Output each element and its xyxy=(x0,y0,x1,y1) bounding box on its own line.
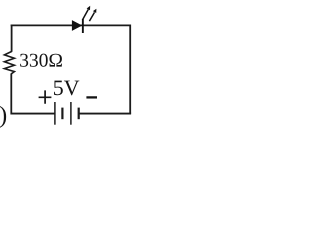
LED light arrow 2 head xyxy=(93,9,97,13)
LED D1 cathode bar xyxy=(82,19,84,33)
resistor R (zigzag) xyxy=(4,51,14,73)
LED light arrow 2 shaft xyxy=(89,12,94,21)
label 330 ohm xyxy=(20,54,62,67)
battery cell1 positive long plate xyxy=(54,102,56,125)
figure label paren xyxy=(0,106,6,128)
plus sign (battery +) xyxy=(39,90,52,103)
label 5V xyxy=(54,81,79,96)
LED light arrow 1 shaft xyxy=(83,9,89,20)
minus sign (battery -) xyxy=(86,96,97,98)
wire bottom right xyxy=(79,113,131,115)
LED D1 triangle (anode) xyxy=(72,20,82,31)
wire right xyxy=(129,25,131,114)
wire bottom left xyxy=(11,113,55,115)
wire top xyxy=(11,24,131,26)
battery cell1 negative short plate xyxy=(61,108,63,120)
LED light arrow 1 head xyxy=(87,6,91,10)
wire left lower xyxy=(10,73,12,114)
battery cell2 positive long plate xyxy=(70,102,72,125)
battery cell2 negative short plate xyxy=(78,108,80,120)
wire left upper xyxy=(11,25,13,52)
